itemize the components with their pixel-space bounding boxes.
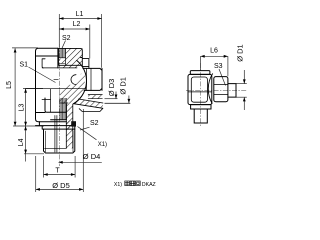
svg-text:X1): X1) xyxy=(114,182,122,188)
svg-text:T: T xyxy=(55,168,60,175)
svg-text:L5: L5 xyxy=(6,81,13,89)
svg-text:L4: L4 xyxy=(18,138,25,146)
svg-text:Ø D5: Ø D5 xyxy=(52,181,70,190)
svg-text:Ø D1: Ø D1 xyxy=(118,77,127,95)
svg-text:S3: S3 xyxy=(214,63,223,70)
svg-text:X1): X1) xyxy=(98,142,107,148)
svg-text:S1: S1 xyxy=(20,61,29,68)
svg-text:S2: S2 xyxy=(62,35,71,42)
svg-text:L1: L1 xyxy=(76,11,84,18)
svg-text:Ø D1: Ø D1 xyxy=(235,44,244,62)
svg-text:S2: S2 xyxy=(90,120,99,127)
svg-text:L3: L3 xyxy=(18,104,25,112)
svg-text:L2: L2 xyxy=(73,21,81,28)
svg-text:Ø D4: Ø D4 xyxy=(83,152,101,161)
svg-text:DKAZ: DKAZ xyxy=(142,182,156,188)
svg-text:Ø D3: Ø D3 xyxy=(107,79,116,97)
svg-text:L6: L6 xyxy=(210,48,218,55)
